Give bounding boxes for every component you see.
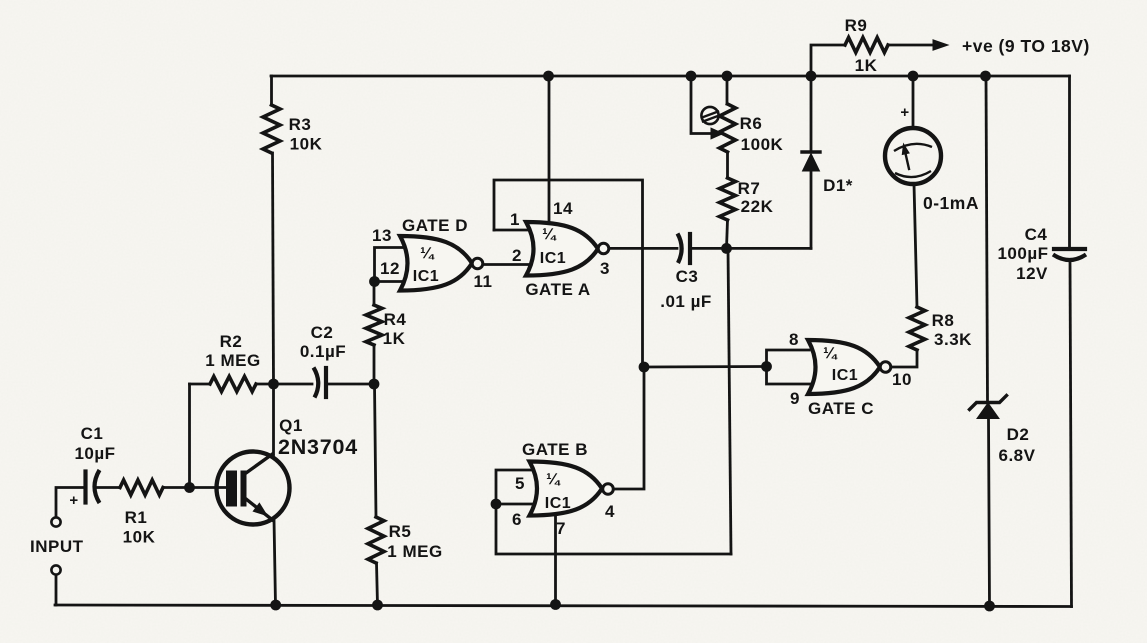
trimmer R6 wiper arm (691, 76, 712, 134)
node R5 ground junction (372, 600, 383, 611)
node base junction (184, 482, 195, 493)
wire R6 to R7 (726, 152, 729, 178)
wire C2 to R4 node (326, 383, 374, 386)
svg-text:2N3704: 2N3704 (278, 435, 358, 459)
wire C4 to ground rail (1070, 261, 1072, 607)
svg-text:1: 1 (510, 210, 520, 229)
node pin7 ground junction (550, 599, 561, 610)
svg-text:R5: R5 (389, 522, 412, 541)
wire C3 to timing junction (690, 247, 727, 250)
meter lower arc (895, 171, 931, 177)
wire gate A pin1 lead (494, 229, 528, 232)
svg-text:5: 5 (515, 474, 525, 493)
wire R3 bottom lead down to collector node (273, 153, 274, 384)
svg-text:7: 7 (556, 519, 566, 538)
svg-text:D1*: D1* (823, 176, 853, 195)
svg-text:¼: ¼ (542, 226, 557, 243)
wire lower input terminal to ground rail (55, 575, 58, 605)
node gate D input junction (369, 276, 380, 287)
capacitor C2 curved plate (314, 368, 319, 398)
wire gate B input bracket (496, 470, 531, 504)
transistor Q1 emitter stroke (246, 499, 273, 520)
svg-text:IC1: IC1 (540, 250, 566, 267)
capacitor C4 curved plate (1053, 255, 1086, 261)
gate D inversion bubble (472, 258, 483, 269)
gate A inversion bubble (598, 243, 609, 254)
svg-text:C3: C3 (676, 267, 699, 286)
diode D1 triangle (803, 154, 820, 172)
wire gate A pin14 power lead (548, 76, 551, 222)
wire C1 to R1 (96, 486, 120, 489)
resistor R5 (368, 517, 384, 563)
node R6 rail junction (722, 71, 733, 82)
wire top supply rail (271, 75, 1070, 78)
wire bottom ground rail (55, 605, 1072, 607)
svg-text:14: 14 (553, 199, 573, 218)
wire R5 to ground rail (377, 563, 378, 605)
svg-text:¼: ¼ (823, 345, 838, 362)
gate C inversion bubble (880, 362, 891, 373)
wire R1 to base node (163, 486, 190, 489)
wire D2 anode to ground rail (989, 419, 990, 607)
svg-text:12V: 12V (1016, 264, 1048, 283)
svg-text:3.3K: 3.3K (934, 330, 972, 349)
svg-text:.01 µF: .01 µF (660, 292, 712, 311)
wire R2 left lead (190, 383, 211, 386)
meter scale arc (894, 144, 932, 151)
node collector junction (268, 379, 279, 390)
meter needle arrow (902, 144, 909, 155)
wire collector node down to Q1 (272, 384, 275, 455)
wire R2 right lead to collector node (256, 383, 274, 386)
wire rail right side down to C4 (1068, 76, 1071, 249)
nor gate U1A body (526, 222, 598, 276)
svg-text:4: 4 (605, 502, 615, 521)
node C2/R4/R5 junction (369, 379, 380, 390)
svg-text:6: 6 (512, 510, 522, 529)
wire junction down to R5 (375, 384, 377, 517)
transistor Q1 base bar thin (241, 471, 247, 507)
input terminal lower circle (51, 565, 60, 574)
wire base node to Q1 base (190, 486, 227, 489)
resistor R1 (120, 480, 163, 495)
wire rail down to D2 (986, 76, 988, 402)
wire gate B pin6 lead (496, 503, 532, 506)
nor gate U1D body (400, 236, 472, 291)
capacitor C4 straight plate (1054, 247, 1085, 251)
svg-text:0.1µF: 0.1µF (300, 342, 346, 361)
node D2 rail junction (980, 71, 991, 82)
diode D1 cathode bar (802, 150, 820, 153)
svg-text:1K: 1K (383, 329, 406, 348)
svg-text:R4: R4 (384, 310, 407, 329)
wire gate B pin7 to ground (554, 516, 557, 604)
node pin14 rail junction (543, 71, 554, 82)
svg-text:R3: R3 (289, 115, 312, 134)
svg-text:11: 11 (474, 272, 493, 291)
svg-text:1 MEG: 1 MEG (387, 542, 442, 561)
wire R7 bottom lead (727, 220, 728, 248)
svg-text:D2: D2 (1007, 425, 1030, 444)
wire R3 top lead from rail (270, 76, 273, 105)
meter M1 body circle (885, 128, 941, 184)
capacitor C3 straight plate (688, 234, 692, 263)
node feedback/gateB junction (639, 362, 650, 373)
wire gate C input bracket (767, 350, 811, 384)
wire gate B node down and right to timing line (496, 504, 731, 554)
svg-text:+ve (9 TO 18V): +ve (9 TO 18V) (962, 36, 1090, 56)
svg-text:Q1: Q1 (279, 416, 303, 435)
svg-text:10µF: 10µF (74, 444, 115, 463)
wire Q1 emitter to ground rail (274, 519, 276, 605)
svg-text:GATE D: GATE D (402, 216, 468, 235)
gate B inversion bubble (603, 484, 614, 495)
svg-text:IC1: IC1 (832, 367, 858, 384)
svg-text:12: 12 (380, 259, 400, 278)
transistor Q1 emitter arrow (253, 503, 267, 515)
svg-text:13: 13 (372, 226, 392, 245)
zener D2 triangle (977, 403, 999, 419)
svg-text:IC1: IC1 (413, 268, 439, 285)
capacitor C1 curved plate (95, 470, 100, 503)
svg-text:R8: R8 (932, 311, 955, 330)
resistor R7 (720, 178, 736, 220)
svg-text:1K: 1K (855, 56, 878, 75)
wire R4 to junction (373, 345, 376, 384)
wire gate D input node down to R4 (373, 282, 376, 306)
node gate B input junction (491, 499, 502, 510)
wire node across to gate C inputs (644, 365, 767, 368)
wire gate C output to R8 (891, 350, 917, 367)
wire D1 cathode lead to rail (810, 76, 813, 152)
svg-text:9: 9 (790, 389, 800, 408)
nor gate U1B body (530, 462, 603, 516)
svg-text:+: + (69, 492, 78, 509)
node gate C input junction (761, 361, 772, 372)
svg-text:C4: C4 (1025, 225, 1048, 244)
wire R6 top lead from rail (726, 76, 729, 104)
svg-text:10K: 10K (290, 135, 323, 154)
svg-text:C2: C2 (311, 323, 334, 342)
svg-text:1 MEG: 1 MEG (205, 351, 260, 370)
svg-text:3: 3 (600, 259, 610, 278)
resistor R3 (263, 105, 280, 153)
trimmer R6 wiper arrow (711, 128, 723, 139)
capacitor C1 straight plate (83, 472, 87, 503)
svg-text:22K: 22K (741, 197, 774, 216)
wire R8 up to meter (914, 184, 917, 307)
wire D1 anode lead (810, 171, 813, 248)
resistor R2 (210, 377, 256, 392)
wire gate D pin13 input bracket (375, 248, 405, 282)
svg-text:GATE A: GATE A (525, 280, 590, 299)
trimmer R6 screw slot (702, 112, 718, 118)
capacitor C3 curved plate (678, 234, 682, 264)
wire rail up to R9 (811, 45, 845, 76)
wire gate A output to C3 (609, 247, 677, 250)
trimmer R6 screw slot 2 (703, 116, 719, 122)
wire feedback loop pin1 up and over (494, 180, 643, 367)
transistor Q1 collector stroke (246, 454, 273, 473)
resistor R8 (909, 307, 925, 350)
svg-text:10K: 10K (123, 528, 156, 547)
wire collector node to C2 (274, 383, 313, 386)
svg-text:10: 10 (892, 370, 912, 389)
zener D2 cathode bar (970, 396, 1007, 410)
trimmer resistor R6 (720, 104, 736, 152)
svg-text:R2: R2 (220, 332, 243, 351)
wire gate D output to gate A pin 2 (483, 263, 528, 266)
node D2 ground junction (984, 601, 995, 612)
wire rail down to meter (912, 76, 915, 128)
meter needle (905, 149, 910, 169)
node meter rail junction (908, 71, 919, 82)
transistor Q1 base bar thick (226, 471, 237, 507)
svg-text:+: + (900, 104, 909, 121)
node D1 rail junction (806, 71, 817, 82)
node timing junction C3/R7/D1 (721, 243, 732, 254)
svg-text:IC1: IC1 (545, 495, 571, 512)
wire timing junction to D1 anode (727, 247, 812, 250)
nor gate U1C body (808, 340, 880, 394)
svg-text:R7: R7 (738, 179, 761, 198)
svg-text:R9: R9 (845, 16, 868, 35)
svg-text:GATE B: GATE B (522, 440, 588, 459)
input terminal upper circle (51, 517, 60, 526)
svg-text:0-1mA: 0-1mA (923, 193, 979, 213)
svg-text:¼: ¼ (420, 245, 435, 262)
resistor R9 (845, 38, 888, 53)
wire input terminal to C1 (56, 488, 85, 518)
svg-text:100K: 100K (741, 135, 784, 154)
svg-text:6.8V: 6.8V (999, 446, 1036, 465)
wire base node up to R2 (188, 384, 191, 488)
supply arrow head (933, 40, 948, 50)
svg-text:C1: C1 (81, 424, 104, 443)
transistor Q1 body circle (217, 452, 290, 525)
svg-text:INPUT: INPUT (30, 537, 84, 556)
resistor R4 (366, 305, 382, 345)
svg-text:8: 8 (789, 330, 799, 349)
svg-text:R6: R6 (740, 114, 763, 133)
wire R9 to arrow (888, 44, 934, 47)
capacitor C2 straight plate (324, 368, 328, 397)
node emitter ground junction (270, 600, 281, 611)
svg-text:R1: R1 (125, 508, 148, 527)
wire timing junction down to gate B net (728, 249, 731, 554)
node R6 wiper rail junction (686, 71, 697, 82)
svg-text:¼: ¼ (546, 471, 561, 488)
svg-text:2: 2 (512, 246, 522, 265)
svg-text:GATE C: GATE C (808, 399, 874, 418)
svg-text:100µF: 100µF (997, 244, 1048, 263)
wire gate B output up to node (614, 367, 645, 489)
trimmer R6 screw circle (701, 107, 718, 124)
